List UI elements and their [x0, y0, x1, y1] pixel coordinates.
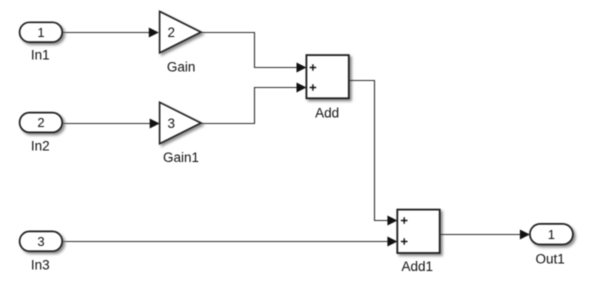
wire In2 to Gain1 — [62, 119, 160, 129]
inport In1 — [20, 22, 63, 62]
gain Gain — [160, 11, 201, 74]
sum Add1 — [397, 210, 439, 274]
svg-text:In3: In3 — [31, 257, 50, 272]
svg-text:Gain: Gain — [167, 59, 196, 74]
svg-text:Add: Add — [315, 105, 339, 120]
svg-text:Gain1: Gain1 — [163, 150, 199, 165]
wire Add1 to Out1 — [440, 230, 530, 240]
svg-text:In1: In1 — [31, 48, 50, 63]
svg-text:2: 2 — [168, 25, 176, 40]
svg-text:1: 1 — [548, 227, 555, 242]
outport Out1 — [530, 224, 573, 266]
sum Add — [306, 55, 348, 120]
wire In3 to Add1 input 2 — [62, 237, 397, 247]
svg-text:Out1: Out1 — [536, 251, 565, 266]
svg-text:Add1: Add1 — [402, 259, 434, 274]
inport In2 — [20, 113, 63, 154]
wire Add to Add1 input 1 — [349, 81, 398, 226]
wire Gain1 to Add input 2 — [201, 83, 307, 124]
svg-text:3: 3 — [37, 234, 44, 249]
wire Gain to Add input 1 — [201, 33, 307, 73]
svg-text:1: 1 — [37, 25, 44, 40]
svg-text:3: 3 — [168, 116, 176, 131]
inport In3 — [20, 231, 63, 272]
svg-text:2: 2 — [37, 115, 44, 130]
svg-text:In2: In2 — [31, 139, 50, 154]
gain Gain1 — [160, 102, 201, 165]
wire In1 to Gain — [62, 28, 159, 38]
